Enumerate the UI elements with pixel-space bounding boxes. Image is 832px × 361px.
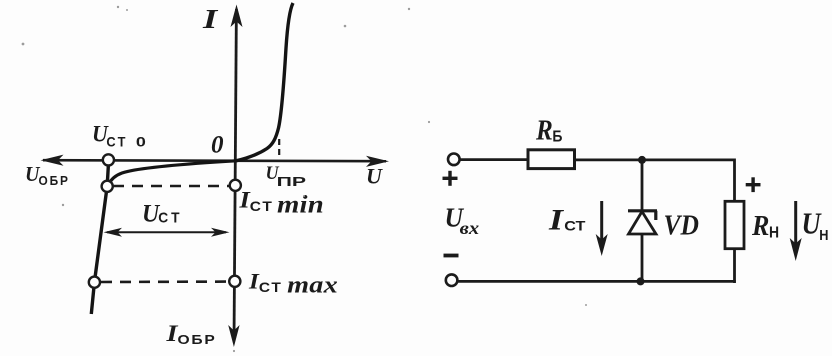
label Uст (dimension) bbox=[142, 200, 183, 228]
label I (axis) bbox=[202, 3, 219, 33]
forward curve bbox=[236, 3, 293, 161]
label Iст max bbox=[248, 270, 338, 298]
label Iст min bbox=[238, 188, 324, 218]
wire right branch upper bbox=[733, 159, 736, 202]
resistor Rн bbox=[725, 201, 744, 248]
label RБ bbox=[535, 114, 563, 146]
arrow Iст bbox=[596, 201, 608, 256]
junction bottom bbox=[637, 277, 645, 285]
dashed tick Uпр bbox=[278, 139, 280, 159]
wire bottom bbox=[458, 280, 736, 283]
label Uпр bbox=[266, 162, 308, 189]
terminal input + bbox=[448, 154, 460, 166]
zener diode VD bbox=[628, 211, 657, 234]
terminal input - bbox=[446, 274, 458, 286]
I axis bbox=[228, 5, 242, 348]
scan speckles bbox=[22, 6, 587, 352]
label Uн bbox=[802, 207, 829, 243]
label Uст0 bbox=[92, 121, 146, 150]
resistor RБ bbox=[528, 150, 575, 169]
wire zener lower bbox=[641, 234, 644, 283]
node Uст0 on U axis bbox=[103, 154, 114, 165]
node breakdown at Iст min bbox=[102, 181, 113, 192]
label Iобр bbox=[165, 320, 216, 347]
svg-text:0: 0 bbox=[211, 132, 224, 159]
breakdown curve bbox=[91, 161, 108, 314]
plus sign input bbox=[443, 171, 458, 186]
wire top right bbox=[575, 158, 735, 161]
svg-text:I: I bbox=[202, 3, 219, 33]
reverse leakage curve bbox=[109, 161, 237, 185]
wire top left bbox=[460, 158, 529, 161]
minus sign input bbox=[444, 254, 459, 258]
label Rн bbox=[751, 209, 779, 242]
label Uвх bbox=[445, 203, 480, 238]
label Uобр bbox=[25, 163, 70, 188]
wire zener upper bbox=[641, 159, 644, 212]
svg-text:VD: VD bbox=[664, 209, 700, 241]
plus sign output bbox=[746, 177, 761, 192]
label VD bbox=[664, 209, 700, 241]
arrow Uн bbox=[790, 201, 802, 261]
junction top bbox=[638, 156, 646, 164]
node Iст max on I axis bbox=[229, 276, 240, 287]
label O (origin) bbox=[211, 132, 224, 159]
label Iст (current) bbox=[548, 203, 585, 236]
node Iст min on I axis bbox=[230, 180, 241, 191]
dashed line Iст max bbox=[101, 280, 228, 283]
node breakdown at Iст max bbox=[89, 277, 100, 288]
label U (axis) bbox=[366, 164, 383, 189]
dashed line Iст min bbox=[113, 185, 229, 188]
svg-text:U: U bbox=[366, 164, 383, 189]
wire right branch lower bbox=[733, 249, 736, 283]
dimension arrow Uст bbox=[104, 228, 230, 237]
U axis bbox=[41, 155, 390, 167]
